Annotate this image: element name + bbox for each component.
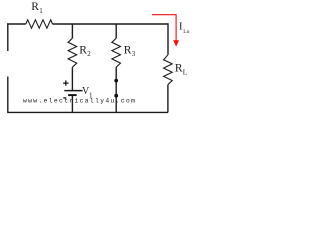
wire: right vertical from top corner down to RL	[167, 23, 169, 55]
svg-text:R: R	[175, 62, 183, 74]
wire: R3 bottom to bottom wire	[115, 67, 117, 112]
wire: battery bottom to bottom wire	[71, 95, 73, 112]
red current arrowhead	[173, 40, 179, 46]
wire: R2 bottom to battery top plate	[71, 67, 73, 90]
wire: top-left horizontal from left corner to R1	[7, 23, 26, 25]
svg-text:R: R	[124, 45, 132, 57]
svg-text:Lo: Lo	[183, 29, 189, 35]
svg-text:3: 3	[132, 50, 136, 58]
battery V1 short (negative) plate	[68, 94, 77, 96]
wire: R3 branch top (node on top wire down to R3)	[115, 24, 117, 38]
svg-text:R: R	[79, 45, 87, 57]
battery V1 minus sign	[63, 97, 66, 99]
svg-text:www.electrically4u.com: www.electrically4u.com	[23, 97, 136, 104]
battery V1 plus sign	[63, 80, 68, 85]
junction dot lower on R3 branch	[114, 94, 118, 98]
battery V1 long (positive) plate	[64, 90, 82, 92]
wire: bottom horizontal	[7, 111, 168, 113]
resistor R3 (vertical zigzag)	[112, 38, 121, 67]
wire: top horizontal from R1 to top-right corner	[53, 23, 169, 25]
resistor RL (vertical zigzag, load)	[164, 55, 173, 85]
wire: left vertical upper segment (open terminal gap below)	[7, 23, 9, 51]
svg-text:R: R	[31, 1, 39, 13]
wire: RL bottom to bottom-right corner	[167, 85, 169, 113]
svg-text:1: 1	[89, 92, 93, 100]
junction dot upper on R3 branch	[114, 79, 118, 83]
wire: left vertical lower segment	[7, 77, 9, 113]
svg-text:2: 2	[87, 50, 91, 58]
svg-text:1: 1	[39, 7, 43, 15]
resistor R1 (horizontal zigzag on top wire)	[26, 20, 53, 28]
svg-text:L: L	[183, 69, 187, 77]
resistor R2 (vertical zigzag)	[68, 38, 77, 67]
red current arrow IL (elbow line)	[152, 15, 176, 41]
wire: R2 branch top (node on top wire down to R2)	[71, 24, 73, 38]
